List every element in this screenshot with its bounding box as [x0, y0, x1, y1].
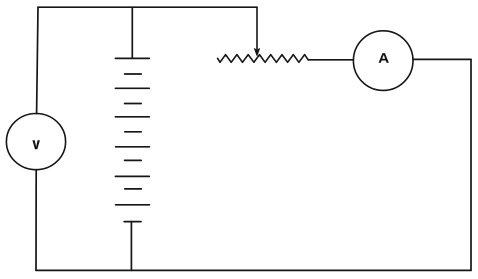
battery (multi-cell): [115, 58, 149, 221]
ammeter A: [353, 31, 413, 91]
wire: left vertical upper segment (corner to voltmeter top): [37, 7, 38, 113]
wire: left vertical lower segment (voltmeter bottom to bottom-left corner): [35, 170, 37, 271]
wire: battery top lead (from top wire down to first plate): [131, 7, 133, 58]
wire: battery bottom lead (from last plate down to bottom wire): [130, 222, 132, 271]
voltmeter V: [6, 114, 65, 170]
wire: rheostat to ammeter: [308, 59, 353, 61]
rheostat resistor (zigzag): [218, 55, 309, 63]
wire: bottom horizontal: [36, 269, 471, 271]
rheostat wiper arrow (stem from top wire, arrowhead pointing down): [255, 7, 260, 55]
wire: right vertical (bottom-right corner up to ammeter branch): [470, 59, 472, 270]
wire: ammeter to right vertical: [413, 58, 471, 60]
wire: top horizontal from left corner to wiper stem: [38, 6, 257, 8]
